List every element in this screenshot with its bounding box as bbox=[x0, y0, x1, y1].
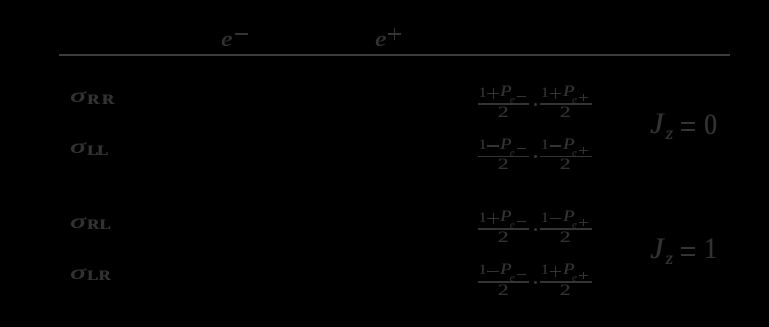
row3 fraction (1+Pe-)/2 bbox=[478, 227, 530, 229]
header e+ bbox=[375, 28, 386, 50]
header rule bbox=[59, 54, 730, 56]
row3 cdot bbox=[534, 228, 537, 231]
row2 fraction (1-Pe-)/2 bbox=[478, 155, 530, 157]
row label sigma_LR bbox=[70, 263, 85, 283]
row label sigma_RL bbox=[70, 212, 85, 232]
row label sigma_LL bbox=[70, 137, 85, 157]
row1 cdot bbox=[534, 103, 537, 106]
row1 fraction (1+Pe-)/2 bbox=[478, 102, 530, 104]
row label sigma_RR bbox=[70, 86, 85, 106]
row1 fraction (1+Pe+)/2 bbox=[540, 102, 592, 104]
row2 cdot bbox=[534, 155, 537, 158]
row4 fraction (1-Pe-)/2 bbox=[478, 280, 530, 282]
Jz = 1 bbox=[650, 234, 663, 264]
row2 fraction (1-Pe+)/2 bbox=[540, 155, 592, 157]
row4 cdot bbox=[534, 281, 537, 284]
header e- bbox=[221, 28, 232, 50]
row4 fraction (1+Pe+)/2 bbox=[540, 280, 592, 282]
Jz = 0 bbox=[650, 109, 663, 139]
row3 fraction (1-Pe+)/2 bbox=[540, 227, 592, 229]
